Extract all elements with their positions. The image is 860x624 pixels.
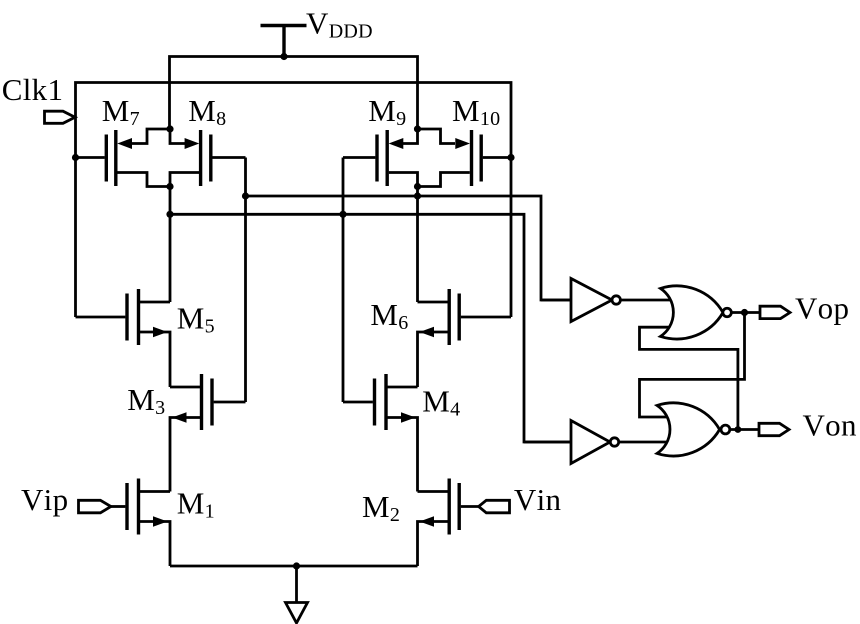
wire NOR1 output to Vop [731,311,760,314]
transistor M10 (PMOS) [418,129,512,187]
inverter U1 [541,279,672,322]
inverter U2 [524,421,672,464]
transistor M6 (NMOS, mirrored) [418,289,512,387]
svg-text:Vop: Vop [795,291,849,326]
wire net Y (M7/M8 drains to M9 gate to inverter U2) [170,158,575,443]
junction M9/M10 drain node [414,183,421,190]
svg-text:M3: M3 [127,382,165,419]
junction net Y at M7/M8 drain column [166,211,173,218]
svg-text:M7: M7 [102,93,140,130]
wire feedback Von to NOR1 input [640,327,738,429]
transistor M3 (NMOS, mirrored) [170,374,246,492]
junction Clk1-M7 gate [72,154,79,161]
transistor M2 (NMOS, mirrored) [418,479,479,567]
wire tail rail [170,565,418,568]
wire VDDD top rail [170,57,418,130]
junction net Y at M9 gate [339,211,346,218]
svg-text:M10: M10 [452,93,500,130]
port Vip [79,500,111,513]
wire right column pair to M6 [416,187,419,303]
junction net X at M8 gate [242,192,249,199]
junction net X at M9/M10 drain column [414,192,421,199]
wire feedback Vop to NOR2 input [640,313,745,418]
wire net X (M8 gate to M9/M10 drains to inverter U1) [246,158,576,403]
junction M7/M8 source node [166,125,173,132]
junction M9/M10 source node [414,125,421,132]
junction Von feedback tap [735,426,742,433]
junction ground tap [293,562,300,569]
port Vop [760,306,790,318]
port Clk1 [45,111,76,123]
port Vin [479,500,510,513]
transistor M5 (NMOS) [76,289,171,387]
svg-text:M9: M9 [368,93,406,130]
wire Clk1 rail [76,83,512,318]
transistor M8 (PMOS) [170,129,246,187]
svg-text:M5: M5 [177,301,215,338]
svg-text:M8: M8 [188,93,226,130]
transistor M4 (NMOS) [343,374,418,492]
svg-text:M6: M6 [370,297,408,334]
transistor M7 (PMOS) [76,129,171,187]
transistor M9 (PMOS) [343,129,418,187]
junction Clk1-M10 gate [507,154,514,161]
svg-text:Vin: Vin [514,482,562,517]
wire left column pair to M5 [169,187,172,303]
transistor M1 (NMOS) [111,479,170,567]
ground [286,566,308,623]
svg-text:M1: M1 [177,486,215,523]
gate NOR2 [657,403,730,456]
wire NOR2 output to Von [730,428,759,431]
junction Vop feedback tap [741,309,748,316]
svg-text:Clk1: Clk1 [2,72,64,107]
svg-text:Vip: Vip [21,482,68,517]
junction VDDD stem [280,53,287,60]
svg-text:M4: M4 [422,384,460,421]
port Von [759,423,789,435]
gate NOR1 [661,286,732,339]
svg-text:VDDD: VDDD [306,5,373,42]
svg-text:Von: Von [803,408,857,443]
power VDDD symbol [261,26,307,58]
svg-text:M2: M2 [362,489,400,526]
junction M7/M8 drain node [166,183,173,190]
